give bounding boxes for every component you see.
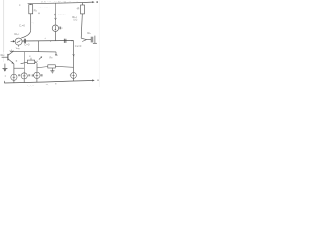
top rail wire [28, 3, 84, 4]
series cap on rail [63, 39, 65, 43]
resistor R1 box [29, 5, 33, 14]
current source arrow inside [54, 26, 56, 30]
output terminal bar [93, 42, 97, 44]
source V1 circle [11, 74, 17, 80]
svg-text:-..-.--: -..-.-- [27, 84, 34, 87]
V1 bottom wire [13, 81, 15, 83]
svg-text:-..-..-..: -..-..-.. [58, 14, 66, 16]
current source label [59, 27, 61, 30]
Q1 collector [8, 51, 14, 56]
svg-text:C=0: C=0 [24, 43, 30, 47]
V1 cross [13, 74, 15, 81]
source V4 circle [71, 73, 77, 79]
R1 top wire [30, 4, 32, 5]
junction dot right [71, 40, 72, 41]
bottom rail wire [4, 81, 92, 84]
left end tick [9, 50, 11, 51]
tiny marks mid-top [38, 13, 39, 15]
current source I circle [52, 25, 58, 31]
source right wire [22, 40, 24, 42]
RE1 right wire [35, 61, 37, 63]
svg-text:C,=0: C,=0 [19, 23, 25, 27]
arrowhead top right [92, 1, 94, 3]
svg-text:CE=0: CE=0 [75, 44, 82, 48]
output arrow lower diagonal [82, 40, 86, 42]
left ground arrow [4, 69, 7, 71]
current source bottom wire [54, 31, 56, 40]
arrow tick on wire [55, 18, 57, 20]
arrow tick on V4 wire [73, 54, 75, 56]
V4 bottom wire [73, 78, 75, 81]
ground under RE2 stem [51, 68, 53, 71]
output diagonal from R2 [81, 38, 86, 39]
branch to RE2 [37, 67, 48, 68]
top rail right segment with arrow [84, 1, 93, 3]
current source top wire [54, 3, 56, 25]
svg-text:vsig: vsig [16, 47, 20, 50]
source V2 circle [21, 73, 27, 79]
input arrowhead [13, 40, 15, 42]
horizontal wire y68 [14, 67, 24, 69]
V4 plus [72, 74, 74, 76]
svg-text:Rb2: Rb2 [1, 54, 5, 57]
vertical wire to source V4 [73, 41, 75, 73]
V2 cross [23, 73, 25, 80]
output wire [87, 38, 92, 40]
vertical from rail x38.7 [38, 41, 40, 52]
resistor R2 box [81, 5, 85, 14]
output cap bars [90, 37, 92, 43]
source V3 circle [34, 72, 40, 78]
V3 bottom wire [36, 79, 38, 83]
junction dot [50, 40, 51, 41]
mark right of V2 [28, 74, 30, 76]
signal source circle [15, 38, 22, 45]
Q1 emitter [8, 59, 14, 64]
bottom rail left tick [3, 81, 5, 83]
resistor RE2 horizontal box [48, 65, 56, 68]
chevron at x56 [55, 54, 57, 56]
mark between V1 V2 [18, 74, 20, 76]
RE2 right wire [55, 66, 73, 67]
resistor RE1 horizontal box [30, 58, 32, 60]
border frame right [98, 0, 100, 87]
source bottom stub [18, 45, 20, 47]
annotation arrow ie [39, 57, 42, 59]
svg-text:-..,: -.., [30, 21, 34, 24]
RE1 right arrowhead [35, 61, 37, 63]
svg-text:. -- . - .-- .: . -- . - .-- . [38, 7, 50, 9]
node a label [96, 1, 98, 3]
mid rail wire [22, 40, 74, 43]
bottom rail arrowhead [92, 79, 95, 81]
RE1 left wire [21, 62, 28, 64]
caption dot [55, 83, 56, 84]
vertical x56 below node line [55, 52, 57, 56]
left ground stem [4, 64, 6, 69]
vertical wire x24.3 [23, 52, 25, 73]
vertical to source V3 [36, 63, 38, 72]
sine mark inside [17, 40, 21, 43]
border frame left [3, 0, 5, 52]
coupling cap C bars [23, 39, 25, 44]
tiny mark right of emitter [16, 60, 17, 61]
svg-text:-=.: -=. [46, 83, 49, 86]
Q1 base wire [2, 56, 8, 58]
V2 bottom wire [23, 79, 25, 82]
mark left of V3 [32, 74, 34, 76]
V4 left tick [70, 74, 71, 76]
input arrow dash [11, 40, 14, 42]
transistor Q1 base bar [7, 54, 9, 61]
output terminal stem [94, 36, 96, 44]
V3 cross [36, 72, 38, 79]
svg-text:(vo): (vo) [74, 19, 78, 22]
Q1 emitter arrowhead [12, 62, 14, 64]
collector node line [10, 50, 56, 53]
dot after arrow [97, 80, 98, 81]
curved wire from R1 to source [21, 30, 31, 38]
left ground bar [3, 68, 8, 70]
R1 bottom wire [30, 14, 32, 31]
emitter vertical wire [13, 64, 15, 74]
stray dot top-left [19, 4, 20, 5]
mark right of V3 [41, 74, 43, 76]
R2 top wire [82, 3, 84, 5]
ground bars [50, 70, 54, 72]
R2 bottom wire [81, 14, 82, 38]
svg-text:-R: -R [76, 7, 79, 11]
